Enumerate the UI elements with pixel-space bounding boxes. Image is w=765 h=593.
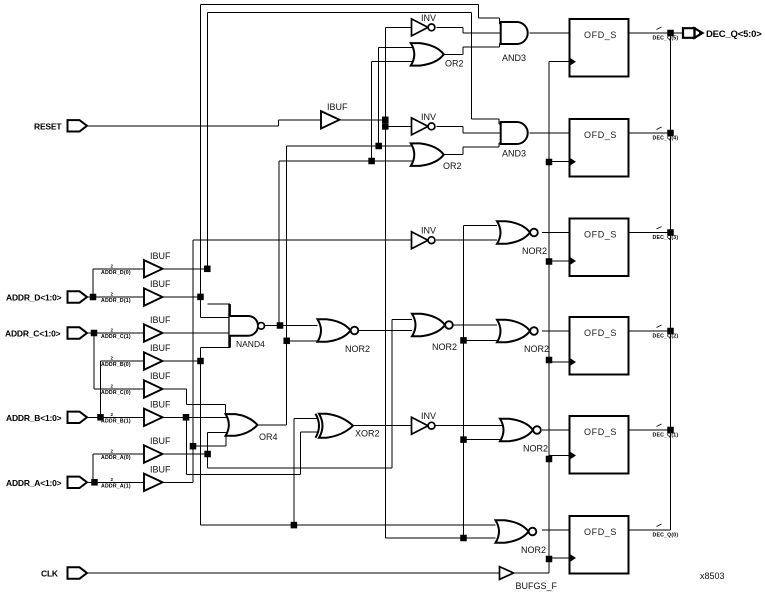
net label ADDR_D(1) bbox=[101, 292, 131, 305]
wire AND3 row1 output to OFD1 D bbox=[530, 32, 570, 34]
wire ADDR_A(0) to OR4 pin3 bbox=[208, 431, 229, 433]
wire IBUF ADDR_A(0) output bbox=[163, 453, 208, 455]
svg-text:INV: INV bbox=[421, 226, 436, 236]
wire output bus vertical DEC_Q bbox=[670, 33, 672, 530]
svg-text:OFD_S: OFD_S bbox=[584, 130, 617, 140]
wire OR4 net to OR2 row2 pin1 bbox=[287, 145, 412, 147]
wire RESET port to IBUF bbox=[87, 120, 321, 126]
wire clock stub to OFD6 bbox=[549, 557, 570, 559]
svg-text:INV: INV bbox=[421, 13, 436, 23]
IBUF ADDR_A(0) bbox=[144, 436, 171, 463]
wire clock stub to OFD5 bbox=[549, 455, 570, 457]
svg-text:ADDR_C(1): ADDR_C(1) bbox=[101, 334, 131, 340]
wire INV row1 output to AND3 pin2 bbox=[437, 27, 501, 33]
wire OR2 row2 output to AND3 row2 pin3 bbox=[444, 143, 501, 155]
inverter INV row3 bbox=[412, 226, 437, 249]
flip-flop OFD_S 6 bbox=[570, 516, 629, 574]
svg-text:ADDR_D(1): ADDR_D(1) bbox=[101, 298, 131, 304]
svg-text:ADDR_A(0): ADDR_A(0) bbox=[101, 455, 131, 461]
net label DEC_Q(3) bbox=[653, 227, 679, 242]
wire BUFGS_F output to clock vertical bbox=[514, 62, 550, 573]
wire OR2 row1 output to AND3 pin3 bbox=[444, 44, 501, 55]
svg-text:NAND4: NAND4 bbox=[236, 339, 265, 349]
wire RESET branch to NOR2 row5 pin2 bbox=[464, 439, 507, 441]
wire IBUF ADDR_B(1) output to OR4 pin2 bbox=[163, 416, 230, 418]
wire RESET to INV row2 bbox=[385, 125, 413, 127]
svg-text:OR4: OR4 bbox=[259, 432, 278, 442]
wire INV row2 output to AND3 pin2 bbox=[437, 126, 501, 133]
junction bus DEC_Q(3) bbox=[667, 229, 674, 236]
junction ADDR_B(0) ibuf out bbox=[197, 358, 204, 365]
nor gate NOR2 row4c bbox=[497, 320, 549, 354]
svg-text:INV: INV bbox=[421, 112, 436, 122]
inverter INV row5 bbox=[412, 411, 437, 434]
junction NAND4 output bbox=[277, 322, 284, 329]
wire ADDR_B port to IBUFs bbox=[87, 361, 144, 417]
svg-text:ADDR_B(1): ADDR_B(1) bbox=[101, 418, 131, 424]
svg-text:AND3: AND3 bbox=[502, 53, 526, 63]
wire OR4 output up branch bbox=[258, 146, 287, 425]
wire NAND4 output to NOR2 row4a pin1 bbox=[265, 325, 318, 327]
net label DEC_Q(2) bbox=[653, 325, 679, 340]
nor gate NOR2 row4b bbox=[412, 314, 457, 352]
input port CLK bbox=[41, 567, 87, 578]
wire AND3 row2 output to OFD2 D bbox=[530, 132, 570, 134]
wire clock stub to OFD2 bbox=[549, 161, 570, 163]
wire net ADDR_D(0) top run to AND3 row2 bbox=[207, 13, 500, 269]
wire IBUF ADDR_D(1) output bbox=[163, 296, 201, 298]
net label ADDR_A(0) bbox=[101, 449, 131, 462]
IBUF ADDR_B(0) bbox=[144, 343, 171, 370]
IBUF ADDR_D(0) bbox=[144, 251, 171, 278]
wire NOR2 row6 output to OFD6 D bbox=[542, 529, 570, 531]
wire RESET right branch vertical bbox=[463, 226, 465, 539]
nand gate NAND4 bbox=[230, 304, 265, 349]
net label DEC_Q(1) bbox=[653, 424, 679, 439]
junction ADDR_C port bbox=[91, 330, 98, 337]
wire NOR2 row4a output to row4b pin2 bbox=[358, 330, 413, 332]
wire ADDR_C(1) to NAND4 pin3 bbox=[159, 332, 231, 334]
wire RESET branch to NOR2 row3 pin1 bbox=[464, 225, 498, 227]
figure number x8503 bbox=[700, 571, 725, 581]
svg-text:NOR2: NOR2 bbox=[522, 246, 547, 256]
svg-text:ADDR_C(0): ADDR_C(0) bbox=[101, 390, 131, 396]
nor gate NOR2 row6 bbox=[496, 520, 547, 555]
net label ADDR_C(1) bbox=[101, 328, 131, 341]
xor gate XOR2 bbox=[316, 414, 380, 439]
wire RESET to INV row1 bbox=[385, 26, 413, 28]
wire OR4 net to NOR2 row4a pin2 bbox=[287, 340, 323, 342]
wire NAND4 output up branch to OR2 row2 bbox=[278, 161, 280, 326]
junction NAND4 net OR2 row1 tap bbox=[368, 158, 375, 165]
wire NOR2 row3 output to OFD3 D bbox=[542, 232, 570, 234]
svg-text:ADDR_D<1:0>: ADDR_D<1:0> bbox=[6, 293, 62, 303]
svg-text:DEC_Q<5:0>: DEC_Q<5:0> bbox=[706, 29, 762, 40]
wire ADDR_D port to IBUFs bbox=[87, 269, 144, 297]
or gate OR2 row2 bbox=[411, 143, 462, 171]
svg-text:OR2: OR2 bbox=[443, 161, 462, 171]
wire ADDR_B(1) branch to XOR2 pin2 bbox=[187, 417, 318, 474]
wire IBUF ADDR_D(0) output bbox=[163, 268, 208, 270]
net label ADDR_D(0) bbox=[101, 263, 131, 276]
svg-text:IBUF: IBUF bbox=[150, 251, 171, 261]
svg-text:IBUF: IBUF bbox=[150, 436, 171, 446]
wire ADDR_A port to IBUFs bbox=[87, 454, 144, 482]
junction clock OFD4 bbox=[546, 357, 553, 364]
clock buffer BUFGS_F bbox=[500, 567, 558, 591]
wire ADDR_D(1) to NAND4 pin2 bbox=[201, 297, 231, 318]
svg-text:DEC_Q(5): DEC_Q(5) bbox=[653, 36, 679, 42]
net label DEC_Q(4) bbox=[653, 127, 679, 142]
svg-text:NOR2: NOR2 bbox=[521, 545, 546, 555]
svg-text:DEC_Q(4): DEC_Q(4) bbox=[653, 136, 679, 142]
net label ADDR_B(0) bbox=[101, 356, 131, 369]
wire INV row3 output to NOR2 row3 pin2 bbox=[436, 239, 497, 241]
wire CLK port to BUFGS_F bbox=[87, 572, 500, 574]
junction ADDR_D port bbox=[90, 294, 97, 301]
junction RESET right branch bbox=[460, 535, 467, 542]
svg-text:IBUF: IBUF bbox=[150, 371, 171, 381]
svg-text:BUFGS_F: BUFGS_F bbox=[516, 581, 558, 591]
wire OFD2 Q to bus bbox=[629, 132, 671, 134]
wire OFD4 Q to bus bbox=[629, 330, 671, 332]
junction XOR pin1 tap bbox=[291, 522, 298, 529]
wire NAND4 net to OR2 row2 pin2 bbox=[279, 160, 412, 162]
junction ADDR_D(0) ibuf out bbox=[204, 266, 211, 273]
input port RESET bbox=[34, 120, 87, 131]
flip-flop OFD_S 3 bbox=[570, 219, 629, 277]
wire RESET vertical distribution bbox=[384, 27, 386, 538]
svg-text:OFD_S: OFD_S bbox=[584, 527, 617, 537]
svg-text:ADDR_A(1): ADDR_A(1) bbox=[101, 483, 131, 489]
junction ADDR_D(1) ibuf out bbox=[197, 294, 204, 301]
IBUF ADDR_C(0) bbox=[144, 371, 171, 398]
svg-text:OFD_S: OFD_S bbox=[584, 328, 617, 338]
IBUF ADDR_C(1) bbox=[144, 315, 171, 342]
svg-text:CLK: CLK bbox=[41, 569, 59, 579]
svg-text:ADDR_B<1:0>: ADDR_B<1:0> bbox=[6, 413, 62, 423]
input port ADDR_C<1:0> bbox=[5, 327, 87, 338]
wire OFD6 Q to bus bbox=[629, 529, 671, 531]
svg-text:NOR2: NOR2 bbox=[432, 342, 457, 352]
net label ADDR_A(1) bbox=[101, 477, 131, 490]
wire ADDR_A(1) to OR4 pin4 bbox=[193, 435, 226, 446]
wire ADDR_B(0) to NAND4 pin4 bbox=[201, 347, 231, 525]
net label DEC_Q(0) bbox=[653, 524, 679, 539]
junction bus DEC_Q(2) bbox=[667, 328, 674, 335]
svg-text:ADDR_C<1:0>: ADDR_C<1:0> bbox=[5, 329, 61, 339]
wire ADDR_C port to IBUFs bbox=[87, 333, 144, 389]
junction RESET INV row2 tap bbox=[382, 123, 389, 129]
inverter INV row2 bbox=[412, 112, 437, 135]
net label ADDR_B(1) bbox=[101, 412, 131, 425]
svg-text:IBUF: IBUF bbox=[150, 399, 171, 409]
or gate OR2 row1 bbox=[411, 43, 464, 68]
svg-text:OFD_S: OFD_S bbox=[584, 30, 617, 40]
junction bus DEC_Q(1) bbox=[667, 427, 674, 434]
and gate AND3 row2 bbox=[501, 122, 528, 159]
wire IBUF ADDR_A(1) output bbox=[163, 481, 194, 483]
net label ADDR_C(0) bbox=[101, 384, 131, 397]
wire ADDR_A(0) net to NOR2 row4b pin1 bbox=[392, 319, 412, 468]
svg-text:ADDR_A<1:0>: ADDR_A<1:0> bbox=[6, 478, 62, 488]
svg-text:IBUF: IBUF bbox=[150, 279, 171, 289]
junction ADDR_B(1) ibuf out bbox=[183, 414, 190, 421]
wire clock stub to OFD1 bbox=[549, 61, 570, 63]
wire NOR2 row5 output to OFD5 D bbox=[542, 429, 570, 431]
svg-text:x8503: x8503 bbox=[700, 571, 725, 581]
IBUF ADDR_B(1) bbox=[144, 399, 171, 426]
wire clock stub to OFD3 bbox=[549, 260, 570, 262]
svg-text:INV: INV bbox=[421, 411, 436, 421]
wire ADDR_D(0) to NAND4 pin1 bbox=[207, 303, 230, 305]
svg-text:IBUF: IBUF bbox=[150, 464, 171, 474]
and gate AND3 row1 bbox=[501, 22, 528, 63]
svg-text:XOR2: XOR2 bbox=[355, 429, 380, 439]
svg-text:RESET: RESET bbox=[34, 121, 62, 131]
wire XOR2 output to INV row5 bbox=[354, 425, 413, 427]
svg-text:IBUF: IBUF bbox=[150, 343, 171, 353]
flip-flop OFD_S 1 bbox=[570, 19, 629, 77]
wire IBUF ADDR_C(0) output to OR4 pin1 bbox=[163, 389, 226, 415]
wire INV row5 output to NOR2 row5 pin1 bbox=[434, 425, 503, 427]
wire OFD5 Q to bus bbox=[629, 429, 671, 431]
junction bus DEC_Q(5) bbox=[667, 30, 674, 37]
input port ADDR_D<1:0> bbox=[6, 291, 87, 302]
wire OFD3 Q to bus bbox=[629, 232, 671, 234]
svg-text:DEC_Q(0): DEC_Q(0) bbox=[653, 533, 679, 539]
wire clock stub to OFD4 bbox=[549, 361, 570, 363]
svg-text:DEC_Q(2): DEC_Q(2) bbox=[653, 334, 679, 340]
wire IBUF ADDR_C(1) output bbox=[163, 332, 231, 334]
wire IBUF ADDR_B(0) output bbox=[163, 360, 201, 362]
nor gate NOR2 row5 bbox=[500, 419, 548, 454]
junction RESET NOR row5 tap bbox=[460, 436, 467, 443]
net label DEC_Q(5) bbox=[653, 27, 679, 42]
junction ADDR_A(1) OR4 tap bbox=[190, 443, 197, 450]
junction OR4 net NOR2a tap bbox=[283, 338, 290, 345]
junction OR4 net OR2 row1 tap bbox=[375, 143, 382, 150]
wire NAND4 net to OR2 row1 pin2 bbox=[372, 62, 412, 161]
junction clock OFD5 bbox=[546, 456, 553, 463]
junction RESET NOR row4c tap bbox=[460, 337, 467, 344]
junction bus DEC_Q(4) bbox=[667, 130, 674, 137]
flip-flop OFD_S 5 bbox=[570, 416, 629, 474]
wire ADDR_B(0) up branch to XOR2 pin1 bbox=[294, 419, 318, 526]
IBUF ADDR_D(1) bbox=[144, 279, 171, 306]
junction clock OFD2 bbox=[546, 159, 553, 166]
wire ADDR_A(1) vertical to INV row3 bbox=[193, 240, 413, 482]
svg-text:OFD_S: OFD_S bbox=[584, 230, 617, 240]
svg-text:IBUF: IBUF bbox=[327, 102, 348, 112]
wire NOR2 row4c output to OFD4 D bbox=[542, 330, 570, 332]
svg-text:DEC_Q(3): DEC_Q(3) bbox=[653, 235, 679, 241]
flip-flop OFD_S 2 bbox=[570, 119, 629, 177]
flip-flop OFD_S 4 bbox=[570, 317, 629, 375]
junction clock OFD6 bbox=[546, 556, 553, 563]
svg-text:AND3: AND3 bbox=[502, 149, 526, 159]
wire OFD1 Q to DEC_Q port bbox=[629, 32, 684, 34]
inverter INV row1 bbox=[412, 13, 437, 36]
wire NOR2 row4b output to row4c pin1 bbox=[451, 324, 498, 326]
or gate OR4 bbox=[226, 414, 278, 442]
svg-text:NOR2: NOR2 bbox=[524, 344, 549, 354]
junction ADDR_B port bbox=[97, 414, 104, 421]
svg-text:NOR2: NOR2 bbox=[523, 444, 548, 454]
IBUF RESET bbox=[321, 102, 348, 129]
junction ADDR_A(0) ibuf out bbox=[204, 451, 211, 458]
wire RESET branch to NOR2 row4c pin2 bbox=[464, 339, 504, 341]
svg-text:OFD_S: OFD_S bbox=[584, 427, 617, 437]
svg-text:ADDR_D(0): ADDR_D(0) bbox=[101, 270, 131, 276]
nor gate NOR2 row4a bbox=[318, 319, 371, 354]
junction RESET ibuf out bbox=[382, 117, 389, 124]
wire RESET IBUF output to junctions bbox=[339, 119, 385, 121]
input port ADDR_B<1:0> bbox=[6, 412, 87, 423]
wire RESET bottom to NOR2 row6 pin2 bbox=[385, 537, 495, 539]
svg-text:ADDR_B(0): ADDR_B(0) bbox=[101, 362, 131, 368]
junction ADDR_A port bbox=[91, 479, 98, 486]
wire net ADDR_D(1) top run to AND3 row1 bbox=[201, 5, 501, 297]
svg-text:OR2: OR2 bbox=[445, 59, 464, 69]
nor gate NOR2 row3 bbox=[497, 221, 547, 256]
wire ADDR_A(0) down branch bbox=[208, 432, 392, 468]
wire ADDR_B(0) branch to NOR2 row6 pin1 bbox=[201, 524, 496, 526]
svg-text:NOR2: NOR2 bbox=[345, 344, 370, 354]
junction clock OFD3 bbox=[546, 258, 553, 265]
input port ADDR_A<1:0> bbox=[6, 477, 87, 488]
output port DEC_Q<5:0> bbox=[683, 28, 762, 40]
IBUF ADDR_A(1) bbox=[144, 464, 171, 491]
svg-text:IBUF: IBUF bbox=[150, 315, 171, 325]
svg-text:DEC_Q(1): DEC_Q(1) bbox=[653, 433, 679, 439]
wire OR4 net to OR2 row1 pin1 bbox=[379, 48, 412, 146]
